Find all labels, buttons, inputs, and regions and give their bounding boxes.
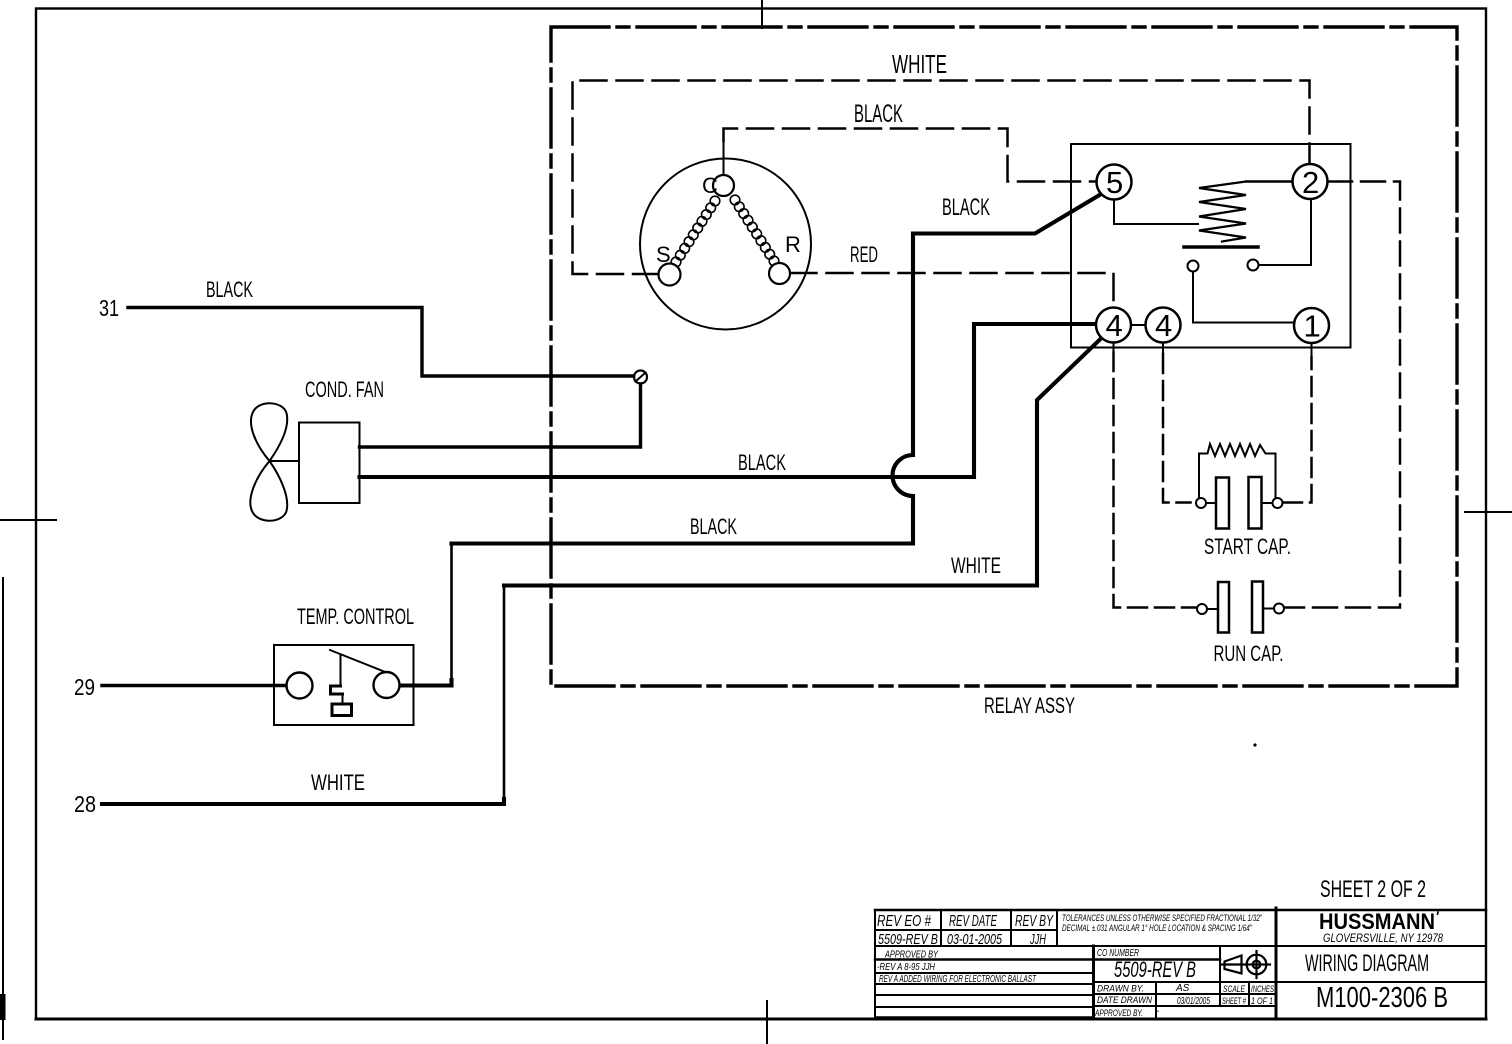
temp control switch arm bbox=[330, 650, 384, 672]
wire dashed: relay 4a to run cap bbox=[1114, 352, 1197, 608]
fan blade top bbox=[251, 403, 287, 461]
motor winding C-S bbox=[671, 196, 720, 267]
wire: junction to fan top bbox=[360, 384, 641, 447]
svg-text:31: 31 bbox=[99, 295, 119, 321]
wire BLACK: temp control to relay 5 (with hop) bbox=[400, 680, 452, 686]
relay core bar bbox=[1184, 245, 1258, 249]
wire BLACK dashed: motor C to relay 5 bbox=[724, 129, 1096, 182]
motor winding C-R bbox=[730, 195, 779, 266]
svg-text:DRAWN BY.: DRAWN BY. bbox=[1097, 984, 1144, 995]
temp control box bbox=[274, 645, 414, 725]
svg-text:BLACK: BLACK bbox=[854, 100, 903, 128]
svg-text:C: C bbox=[702, 173, 718, 198]
svg-text:HUSSMANN: HUSSMANN bbox=[1319, 909, 1435, 934]
relay terminal 2 bbox=[1293, 164, 1328, 199]
svg-text:-REV A 8-95 JJH: -REV A 8-95 JJH bbox=[877, 961, 935, 973]
svg-text:REV DATE: REV DATE bbox=[949, 913, 997, 930]
svg-text:SCALE: SCALE bbox=[1223, 984, 1246, 994]
wire dashed: run cap to relay 2 bbox=[1284, 182, 1400, 608]
wire coil to 2 bbox=[1246, 180, 1293, 182]
svg-text:BLACK: BLACK bbox=[206, 277, 253, 302]
relay terminal 1 bbox=[1294, 308, 1329, 343]
terminal stubs bbox=[1114, 343, 1312, 358]
svg-text:COND. FAN: COND. FAN bbox=[305, 377, 384, 402]
svg-text:RUN CAP.: RUN CAP. bbox=[1214, 641, 1284, 666]
start capacitor plates bbox=[1216, 478, 1229, 529]
svg-text:BLACK: BLACK bbox=[942, 194, 990, 221]
relay coil bbox=[1199, 182, 1246, 242]
svg-text:R: R bbox=[785, 232, 801, 257]
svg-text:1: 1 bbox=[1304, 309, 1321, 344]
temp control terminal right bbox=[374, 672, 400, 698]
svg-text:SHEET #: SHEET # bbox=[1222, 996, 1247, 1006]
start cap node left bbox=[1196, 498, 1206, 508]
svg-text:4: 4 bbox=[1106, 308, 1123, 343]
svg-text:4: 4 bbox=[1155, 308, 1172, 343]
run capacitor plates bbox=[1218, 582, 1229, 633]
svg-text:REV EO #: REV EO # bbox=[877, 913, 932, 930]
svg-text:APPROVED BY: APPROVED BY bbox=[884, 950, 939, 961]
svg-text:REV A ADDED WIRING FOR ELECTRO: REV A ADDED WIRING FOR ELECTRONIC BALLAS… bbox=[879, 973, 1037, 985]
junction connector bbox=[634, 371, 647, 384]
wire RED dashed: motor R to relay 4 bbox=[791, 273, 1114, 307]
temp control terminal left bbox=[287, 673, 313, 699]
svg-text:WHITE: WHITE bbox=[311, 770, 365, 795]
wire contact right to 2 bbox=[1259, 200, 1312, 266]
fan blade bottom bbox=[250, 461, 287, 521]
wire 31 BLACK bbox=[128, 308, 634, 377]
wire 4a-4b link bbox=[1131, 324, 1146, 326]
svg-text:RED: RED bbox=[850, 242, 878, 267]
svg-text:03-01-2005: 03-01-2005 bbox=[947, 931, 1002, 948]
svg-text:BLACK: BLACK bbox=[690, 514, 737, 539]
motor terminal R bbox=[769, 263, 790, 284]
fan shaft bbox=[270, 460, 300, 462]
title block grid bbox=[875, 909, 1486, 912]
compressor motor body bbox=[640, 159, 811, 330]
run cap node left bbox=[1197, 604, 1207, 614]
svg-text:WIRING DIAGRAM: WIRING DIAGRAM bbox=[1305, 950, 1429, 977]
motor terminal C bbox=[713, 175, 734, 196]
wire 28 WHITE to relay 4 bbox=[102, 799, 504, 804]
svg-text:WHITE: WHITE bbox=[951, 553, 1001, 578]
relay terminal 4b bbox=[1146, 308, 1181, 343]
svg-text:REV BY: REV BY bbox=[1015, 913, 1054, 930]
svg-text:28: 28 bbox=[74, 791, 96, 817]
relay coil feed from 5 bbox=[1114, 200, 1198, 225]
run cap node right bbox=[1274, 604, 1284, 614]
svg-text:SHEET 2 OF 2: SHEET 2 OF 2 bbox=[1320, 876, 1426, 903]
relay assembly boundary (dash-dot) bbox=[551, 27, 1457, 686]
svg-text:START CAP.: START CAP. bbox=[1204, 534, 1291, 559]
svg-text:DATE DRAWN -: DATE DRAWN - bbox=[1097, 995, 1157, 1006]
svg-text:03/01/2005: 03/01/2005 bbox=[1177, 996, 1210, 1007]
svg-text:APPROVED BY.: APPROVED BY. bbox=[1094, 1008, 1143, 1019]
wire 29 lead bbox=[102, 684, 287, 687]
svg-text:1 OF 1: 1 OF 1 bbox=[1251, 996, 1273, 1006]
svg-text:5509-REV B: 5509-REV B bbox=[878, 931, 938, 948]
third angle projection symbol bbox=[1225, 956, 1242, 974]
wire dashed: start cap to relay 1 bbox=[1283, 357, 1312, 503]
svg-text:5509-REV B: 5509-REV B bbox=[1114, 957, 1196, 982]
svg-text:WHITE: WHITE bbox=[892, 49, 947, 79]
relay terminal 4a bbox=[1096, 308, 1131, 343]
svg-text:RELAY ASSY: RELAY ASSY bbox=[984, 693, 1075, 718]
svg-text:INCHES: INCHES bbox=[1251, 984, 1274, 994]
svg-text:5: 5 bbox=[1106, 165, 1123, 200]
svg-text:29: 29 bbox=[74, 674, 95, 700]
svg-text:BLACK: BLACK bbox=[738, 450, 786, 475]
relay box bbox=[1071, 144, 1351, 348]
start capacitor bleed resistor bbox=[1199, 444, 1276, 498]
condenser fan motor box bbox=[299, 423, 360, 504]
relay contact right bbox=[1248, 260, 1259, 271]
wire contact left to 1 bbox=[1193, 272, 1294, 323]
svg-text:2: 2 bbox=[1302, 165, 1319, 200]
motor terminal S bbox=[659, 264, 681, 286]
relay contact left bbox=[1188, 261, 1199, 272]
motor C stub bbox=[723, 142, 725, 176]
svg-text:S: S bbox=[656, 242, 671, 267]
svg-text:M100-2306 B: M100-2306 B bbox=[1316, 982, 1448, 1014]
relay terminal 5 bbox=[1097, 165, 1132, 200]
wire BLACK: fan to relay 4 bbox=[360, 324, 1096, 477]
svg-text:JJH: JJH bbox=[1029, 931, 1046, 948]
start cap node right bbox=[1273, 498, 1283, 508]
title block texts bbox=[877, 908, 1448, 1019]
wire WHITE dashed: motor S to relay 2 bbox=[573, 81, 1310, 275]
svg-text:TEMP. CONTROL: TEMP. CONTROL bbox=[297, 604, 414, 629]
temp control actuator bbox=[340, 655, 342, 685]
svg-text:AS: AS bbox=[1175, 983, 1190, 994]
wire dashed: relay 4b to start cap bbox=[1163, 354, 1191, 503]
svg-text:DECIMAL ±.031 ANGULAR 1° HOLE: DECIMAL ±.031 ANGULAR 1° HOLE LOCATION &… bbox=[1062, 923, 1252, 934]
svg-text:GLOVERSVILLE, NY 12978: GLOVERSVILLE, NY 12978 bbox=[1323, 933, 1443, 945]
